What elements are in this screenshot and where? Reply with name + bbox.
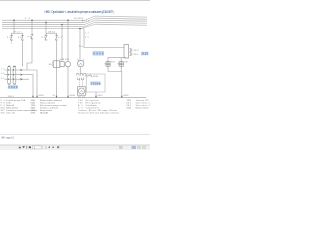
bus wire 15 left xyxy=(2,21,85,23)
svg-text:K46 12V: K46 12V xyxy=(60,59,70,61)
relay K1 coil box xyxy=(60,62,64,67)
wire M1 to connector pins xyxy=(80,67,82,73)
svg-text:H85 : Opel Astra H - circuit d: H85 : Opel Astra H - circuit de la pompe… xyxy=(45,10,114,14)
page background xyxy=(0,0,150,150)
legend column 3 xyxy=(78,99,120,115)
bus jog 30 xyxy=(85,16,96,20)
dashed wire M1-b xyxy=(82,80,84,87)
pump circle inside xyxy=(79,88,85,94)
relay K1 contact circle xyxy=(65,61,70,66)
fuse F1 xyxy=(10,33,13,41)
X1 top pin tick a xyxy=(8,65,10,67)
svg-text:J125: J125 xyxy=(142,53,149,56)
bus jog 15 xyxy=(85,18,96,22)
wire from pump connector to ECU switch xyxy=(85,75,88,77)
bus wire 31 right xyxy=(95,24,147,25)
svg-text:G112: G112 xyxy=(98,95,104,97)
fuse box K2 xyxy=(52,61,60,68)
ECU box A1 xyxy=(86,74,105,92)
bus wire X left xyxy=(2,26,85,28)
svg-text:87 J.2: 87 J.2 xyxy=(82,21,90,23)
terminal tick right M1 xyxy=(83,59,84,60)
fuse F5 xyxy=(55,33,58,40)
toolbar page input xyxy=(33,146,42,149)
pump motor M1 circle xyxy=(78,60,84,66)
connector X1 housing a xyxy=(8,66,11,84)
bus wire 15A left xyxy=(2,24,85,26)
bus jog X xyxy=(85,22,96,26)
X1 top pin tick b xyxy=(13,65,15,67)
relay K3 label (blue pill) xyxy=(93,51,105,56)
schematic bottom border xyxy=(0,97,147,99)
wire feed to relay box K3 xyxy=(84,29,124,48)
terminal tick left M1 xyxy=(77,59,78,60)
svg-text:X500 2: X500 2 xyxy=(8,96,15,98)
svg-text:Conn. 12v: Conn. 12v xyxy=(6,113,16,115)
bus jog 31 xyxy=(81,24,95,28)
wire feed to K1 contact xyxy=(67,20,69,61)
legend column 4 xyxy=(126,99,150,110)
X1 wire row 1 continuation to ground xyxy=(27,70,37,97)
wire K2 to ground xyxy=(56,67,58,97)
bus jog 15A xyxy=(85,20,96,24)
wire A1 to ground xyxy=(95,92,97,97)
wire feed to K1 coil xyxy=(61,25,63,61)
X1 pin arrow row3 xyxy=(20,78,22,80)
wire to valve Y2 xyxy=(120,58,122,61)
svg-text:UEC2: UEC2 xyxy=(48,31,56,33)
bus wire 31 left xyxy=(2,28,84,30)
node dot B (32,20.3) xyxy=(31,20,33,22)
wire F2 to connector X1 xyxy=(22,40,24,67)
svg-text:Masse moteur: Masse moteur xyxy=(136,107,149,110)
legend column 2 xyxy=(31,99,68,115)
wire F5 to fuse box K2 xyxy=(56,40,58,61)
connector X1 housing b xyxy=(13,66,16,84)
wire F3 down and jog to node xyxy=(27,41,32,70)
wire Y2 bottom xyxy=(120,68,122,72)
X1 pin arrow row1 xyxy=(20,69,22,71)
ground terminal at x=37 xyxy=(36,96,37,98)
svg-text:30: 30 xyxy=(25,18,31,20)
node dot F (80,28.6) xyxy=(79,28,81,30)
svg-text:X500: X500 xyxy=(8,86,18,89)
bus wire 30 left xyxy=(2,19,85,21)
relay K3 body xyxy=(124,45,129,59)
window top border xyxy=(0,0,150,2)
svg-text:K500: K500 xyxy=(93,52,104,56)
fuse F2 xyxy=(21,33,24,40)
svg-text:X6.1: X6.1 xyxy=(134,54,140,56)
svg-text:Masse AV: Masse AV xyxy=(40,112,49,115)
svg-text:EV16: EV16 xyxy=(93,76,99,78)
wire K1 to ground xyxy=(67,67,69,97)
svg-text:G108: G108 xyxy=(70,95,76,97)
legend column 1 xyxy=(1,99,38,115)
connector pin bracket row2 a xyxy=(78,78,80,80)
node dot C (46,22.45) xyxy=(45,22,47,24)
svg-text:F17: F17 xyxy=(15,31,22,33)
connector pin bracket row1 a xyxy=(77,73,79,75)
node dot A (14,20.3) xyxy=(13,20,15,22)
dashed wire M1-a xyxy=(78,80,80,87)
blue pill label A1 xyxy=(90,81,101,85)
footer divider xyxy=(0,134,150,136)
node dot D (68,20.3) xyxy=(67,20,69,22)
connector pin bracket row2 b xyxy=(81,78,83,80)
wire valves to ground rail xyxy=(108,68,122,97)
fuse F4 xyxy=(45,33,48,40)
X1 wire row 1 xyxy=(5,69,27,71)
wire link F1-F2 xyxy=(12,32,23,34)
net label at right (blue) xyxy=(141,52,149,56)
X1 row ticks on housings xyxy=(8,69,13,80)
M marks inside pump xyxy=(80,90,82,92)
ground terminal at x=96 xyxy=(95,96,96,98)
svg-text:X6.2: X6.2 xyxy=(134,50,140,52)
fuel pump assembly box xyxy=(77,87,85,95)
bus wire 15A right xyxy=(95,20,147,21)
valve Y2 xyxy=(118,61,124,69)
M marks inside xyxy=(79,63,82,65)
viewer toolbar xyxy=(0,145,150,150)
ground terminal at x=33 xyxy=(32,96,33,98)
X1 bottom pin tick a xyxy=(8,83,10,85)
X1 blue label xyxy=(8,85,18,89)
ground terminal at x=68 xyxy=(67,96,68,98)
toolbar right buttons xyxy=(119,146,123,149)
svg-text:H85 - page 1/2: H85 - page 1/2 xyxy=(1,136,15,139)
svg-text:G116: G116 xyxy=(123,95,129,97)
bus wire X right xyxy=(95,22,147,23)
X1 pin arrow row2 xyxy=(20,74,22,76)
X1 bottom pin tick b xyxy=(13,83,15,85)
connector pin bracket row1 c xyxy=(84,73,86,75)
bus wire 30 right xyxy=(95,16,147,17)
wire feed to F4/F5 link xyxy=(45,22,47,33)
valve Y1 xyxy=(104,61,110,69)
wire link F4-F5 xyxy=(46,32,57,34)
connector pin bracket row1 b xyxy=(80,73,82,75)
X1 wire row 2 xyxy=(5,75,33,97)
switch inside A1 xyxy=(88,75,93,77)
wire feed to F3 xyxy=(31,20,33,34)
wire feed to pump motor M1 xyxy=(79,29,81,61)
svg-text:Y500b: Y500b xyxy=(91,82,101,85)
ground terminal at x=56.5 xyxy=(56,96,57,98)
bus wire 15 right xyxy=(95,18,147,19)
fuse F3 xyxy=(31,34,34,41)
wire K3 bottom to valves xyxy=(108,58,126,61)
pin dot K3-2 xyxy=(130,54,131,55)
node dot E (62,24.55) xyxy=(61,24,63,26)
wire feed to F1/F2 link xyxy=(13,20,15,33)
X1 wire row 3 xyxy=(5,78,29,80)
svg-text:Section en mm2 sauf indication: Section en mm2 sauf indication contraire xyxy=(78,112,120,115)
pin dot K3-1 xyxy=(130,50,131,51)
ground terminal at x=121.8 xyxy=(121,96,122,98)
connector pins of K3 xyxy=(130,49,133,56)
svg-text:G102: G102 xyxy=(39,95,45,97)
